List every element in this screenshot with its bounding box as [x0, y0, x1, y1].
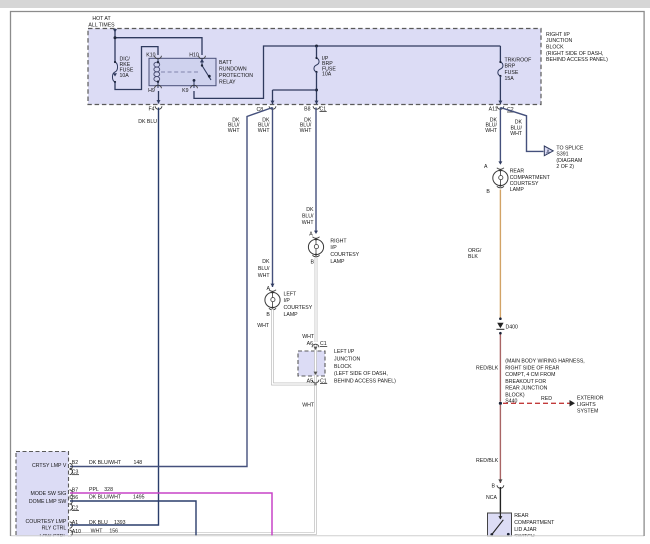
svg-text:HOT AT: HOT AT: [92, 16, 111, 22]
svg-text:BRP: BRP: [505, 64, 516, 70]
svg-text:DOME LMP SW: DOME LMP SW: [29, 499, 66, 505]
svg-text:RIGHT: RIGHT: [330, 238, 347, 244]
svg-text:B: B: [266, 312, 270, 318]
svg-text:A6: A6: [307, 341, 313, 347]
svg-text:F4: F4: [148, 106, 154, 112]
svg-text:A11: A11: [489, 106, 498, 112]
svg-text:1495: 1495: [133, 495, 145, 501]
svg-text:WHT: WHT: [258, 128, 271, 134]
svg-text:WHT: WHT: [302, 220, 315, 226]
svg-text:LAMP: LAMP: [330, 259, 345, 265]
svg-text:A: A: [309, 232, 313, 238]
svg-text:COMPARTMENT: COMPARTMENT: [510, 175, 551, 181]
svg-text:WHT: WHT: [91, 529, 104, 535]
svg-text:A: A: [267, 286, 271, 292]
svg-text:A: A: [484, 164, 488, 170]
svg-text:CRTSY LMP V: CRTSY LMP V: [32, 463, 67, 469]
svg-text:LAMP: LAMP: [284, 312, 299, 318]
svg-text:PROTECTION: PROTECTION: [219, 73, 253, 79]
svg-text:K10: K10: [146, 52, 155, 58]
svg-text:BLK: BLK: [468, 254, 478, 260]
svg-text:B6: B6: [72, 495, 78, 501]
svg-text:BEHIND ACCESS PANEL): BEHIND ACCESS PANEL): [546, 57, 608, 63]
svg-text:WHT: WHT: [258, 273, 271, 279]
svg-text:RIGHT I/P: RIGHT I/P: [546, 32, 570, 38]
svg-text:DK BLU/WHT: DK BLU/WHT: [89, 460, 122, 466]
svg-text:10A: 10A: [120, 73, 130, 79]
svg-text:A10: A10: [72, 529, 81, 535]
svg-text:(MAIN BODY WIRING HARNESS,: (MAIN BODY WIRING HARNESS,: [505, 359, 584, 365]
svg-text:REAR JUNCTION: REAR JUNCTION: [505, 386, 547, 392]
svg-text:RIGHT SIDE OF REAR: RIGHT SIDE OF REAR: [505, 365, 559, 371]
svg-text:LEFT I/P: LEFT I/P: [334, 349, 355, 355]
svg-text:LEFT: LEFT: [284, 291, 298, 297]
svg-text:REAR: REAR: [514, 513, 529, 519]
svg-text:B2: B2: [72, 460, 78, 466]
svg-text:DK: DK: [262, 259, 270, 265]
svg-text:H10: H10: [189, 52, 199, 58]
svg-text:RLY CTRL: RLY CTRL: [42, 526, 67, 532]
svg-text:JUNCTION: JUNCTION: [546, 38, 572, 44]
svg-text:BLOCK: BLOCK: [334, 364, 352, 370]
svg-text:BATT: BATT: [219, 60, 233, 66]
svg-text:DK BLU/WHT: DK BLU/WHT: [89, 495, 122, 501]
svg-text:B8: B8: [304, 106, 310, 112]
svg-text:FUSE: FUSE: [505, 70, 519, 76]
svg-text:LIGHTS: LIGHTS: [577, 402, 596, 408]
svg-text:2 OF 2): 2 OF 2): [556, 164, 574, 170]
svg-text:BEHIND ACCESS PANEL): BEHIND ACCESS PANEL): [334, 379, 396, 385]
svg-text:REAR: REAR: [510, 169, 525, 175]
svg-text:WHT: WHT: [302, 334, 315, 340]
svg-text:RUNDOWN: RUNDOWN: [219, 67, 247, 73]
svg-text:(RIGHT SIDE OF DASH,: (RIGHT SIDE OF DASH,: [546, 51, 603, 57]
svg-text:MODE SW SIG: MODE SW SIG: [31, 491, 67, 497]
svg-text:EXTERIOR: EXTERIOR: [577, 395, 604, 401]
svg-text:B: B: [492, 484, 496, 490]
svg-text:A1: A1: [72, 520, 78, 526]
svg-text:WHT: WHT: [300, 128, 313, 134]
svg-text:B: B: [486, 189, 490, 195]
svg-text:I/P: I/P: [284, 298, 291, 304]
svg-text:LAMP: LAMP: [510, 187, 525, 193]
svg-text:BLU/: BLU/: [258, 266, 270, 272]
svg-text:K9: K9: [182, 88, 188, 94]
svg-text:WHT: WHT: [302, 403, 315, 409]
svg-text:RED/BLK: RED/BLK: [476, 458, 499, 464]
svg-text:COMPARTMENT: COMPARTMENT: [514, 520, 555, 526]
svg-text:ALL TIMES: ALL TIMES: [88, 23, 115, 29]
svg-text:(LEFT SIDE OF DASH,: (LEFT SIDE OF DASH,: [334, 371, 388, 377]
svg-text:COURTESY: COURTESY: [330, 252, 359, 258]
svg-text:RED: RED: [541, 396, 552, 402]
svg-text:BLU/: BLU/: [302, 214, 314, 220]
svg-text:S391: S391: [556, 152, 568, 158]
svg-text:WHT: WHT: [485, 128, 498, 134]
svg-text:I/P: I/P: [330, 245, 337, 251]
svg-text:DK: DK: [306, 207, 314, 213]
svg-text:15A: 15A: [505, 76, 515, 82]
svg-text:WHT: WHT: [228, 128, 241, 134]
svg-text:D400: D400: [506, 325, 519, 331]
svg-text:(DIAGRAM: (DIAGRAM: [556, 158, 582, 164]
svg-text:B: B: [311, 260, 315, 266]
svg-text:COMPT, 4 CM FROM: COMPT, 4 CM FROM: [505, 372, 555, 378]
svg-text:COURTESY LMP: COURTESY LMP: [26, 519, 67, 525]
svg-text:WHT: WHT: [257, 323, 270, 329]
svg-text:BLOCK: BLOCK: [546, 45, 564, 51]
svg-text:ORG/: ORG/: [468, 248, 482, 254]
svg-text:SYSTEM: SYSTEM: [577, 409, 598, 415]
svg-text:148: 148: [134, 460, 143, 466]
svg-text:PPL: PPL: [89, 487, 99, 493]
svg-text:WHT: WHT: [510, 131, 523, 137]
svg-text:DK BLU: DK BLU: [89, 520, 108, 526]
svg-text:156: 156: [109, 529, 118, 535]
svg-text:TRK/ROOF: TRK/ROOF: [505, 58, 532, 64]
svg-text:RELAY: RELAY: [219, 80, 236, 86]
svg-text:JUNCTION: JUNCTION: [334, 356, 360, 362]
svg-text:RED/BLK: RED/BLK: [476, 366, 499, 372]
svg-text:COURTESY: COURTESY: [284, 305, 313, 311]
svg-text:BREAKOUT FOR: BREAKOUT FOR: [505, 379, 546, 385]
svg-text:A5: A5: [307, 378, 313, 384]
svg-text:A: A: [546, 149, 550, 155]
svg-text:1393: 1393: [114, 520, 126, 526]
svg-text:10A: 10A: [322, 72, 332, 78]
svg-text:LID AJAR: LID AJAR: [514, 527, 537, 533]
svg-text:BLOCK): BLOCK): [505, 393, 525, 399]
svg-text:H9: H9: [148, 88, 155, 94]
svg-text:328: 328: [104, 487, 113, 493]
svg-text:DK BLU: DK BLU: [138, 119, 157, 125]
svg-text:COURTESY: COURTESY: [510, 181, 539, 187]
svg-text:TO SPLICE: TO SPLICE: [556, 145, 584, 151]
svg-text:NCA: NCA: [486, 495, 497, 501]
